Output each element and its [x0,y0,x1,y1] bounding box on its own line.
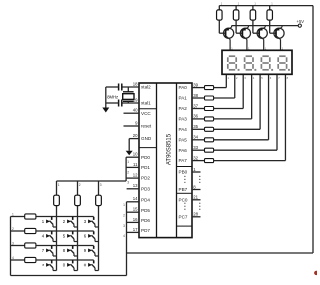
svg-text:PD3: PD3 [141,186,150,191]
svg-text:PD4: PD4 [141,197,150,202]
svg-text:10: 10 [133,152,138,157]
svg-text:15: 15 [133,207,138,212]
svg-text:1: 1 [123,203,125,207]
svg-text:PA3: PA3 [179,117,188,122]
svg-text:PB7: PB7 [179,187,188,192]
svg-text:38: 38 [193,93,198,98]
svg-text:PB0: PB0 [179,170,188,175]
svg-text:1: 1 [58,183,60,187]
svg-text:reset: reset [141,124,152,129]
svg-text:PD5: PD5 [141,208,150,213]
svg-text:xtal1: xtal1 [141,101,151,106]
svg-text:PD7: PD7 [141,228,150,233]
svg-text:3: 3 [12,242,14,246]
svg-text:PD1: PD1 [141,165,150,170]
svg-text:3: 3 [100,183,102,187]
svg-text:28: 28 [193,212,198,217]
svg-text:PA7: PA7 [179,158,188,163]
svg-text:40: 40 [133,108,138,113]
svg-text:3: 3 [123,224,125,228]
svg-text:PA4: PA4 [179,127,188,132]
svg-text:PD6: PD6 [141,218,150,223]
svg-text:PC7: PC7 [179,214,188,219]
svg-text:13: 13 [133,183,138,188]
svg-text:33: 33 [193,145,198,150]
svg-text:21: 21 [193,195,198,200]
svg-text:2: 2 [79,183,81,187]
svg-text:1: 1 [127,160,129,164]
svg-text:11: 11 [133,162,138,167]
svg-text:PD0: PD0 [141,155,150,160]
svg-text:PA2: PA2 [179,106,188,111]
svg-text:1: 1 [12,213,14,217]
svg-text:8MHz: 8MHz [107,94,118,99]
svg-text:14: 14 [133,196,138,201]
svg-text:39: 39 [193,82,198,87]
svg-text:PA0: PA0 [179,85,188,90]
svg-text:PD2: PD2 [141,176,150,181]
svg-text:35: 35 [193,124,198,129]
svg-text:18: 18 [133,81,138,86]
svg-text:16: 16 [133,217,138,222]
svg-text:PA1: PA1 [179,96,188,101]
svg-text:AT90S8515: AT90S8515 [166,133,172,165]
svg-text:17: 17 [133,227,138,232]
svg-text:PA6: PA6 [179,148,188,153]
svg-text:12: 12 [133,173,138,178]
svg-text:xtal2: xtal2 [141,85,151,90]
svg-text:PC0: PC0 [179,197,188,202]
svg-text:2: 2 [12,227,14,231]
svg-text:+5V: +5V [297,19,305,24]
svg-text:20: 20 [133,133,138,138]
svg-text:PA5: PA5 [179,137,188,142]
svg-text:36: 36 [193,114,198,119]
svg-text:34: 34 [193,135,198,140]
svg-text:2: 2 [127,170,129,174]
svg-text:VCC: VCC [141,111,151,116]
svg-text:2: 2 [123,214,125,218]
svg-text:3: 3 [127,181,129,185]
svg-text:37: 37 [193,103,198,108]
svg-text:4: 4 [12,256,14,260]
svg-text:32: 32 [193,155,198,160]
svg-text:GND: GND [141,136,152,141]
svg-text:4: 4 [123,234,125,238]
svg-text:*: * [42,264,44,270]
